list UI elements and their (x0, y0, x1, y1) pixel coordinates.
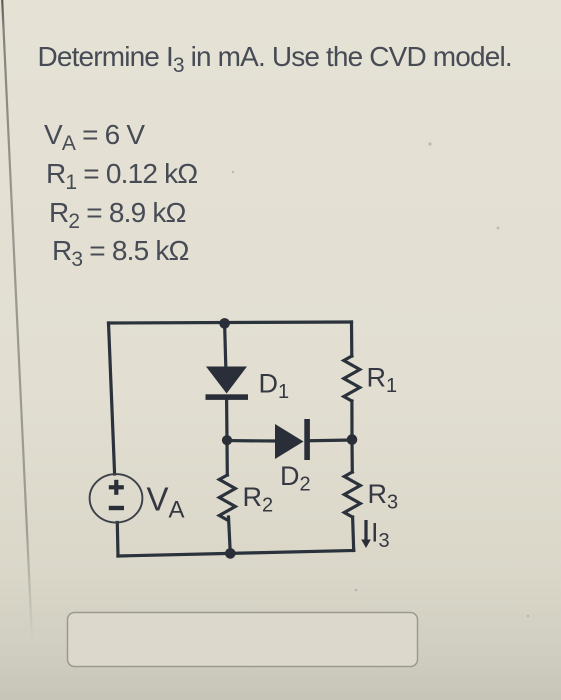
resistor R3 (344, 472, 360, 517)
diode D2 (body) (275, 419, 310, 460)
node: bottom junction (225, 548, 236, 559)
diode D1 (body) (206, 367, 249, 400)
wire: node A to D2 anode (227, 439, 275, 443)
resistor R2 (219, 475, 235, 520)
node A (middle junction) (222, 435, 232, 445)
wire: node B to R3 (350, 440, 353, 472)
voltage source plus sign (109, 480, 124, 495)
wire: bottom rail (118, 551, 354, 557)
wire: R2 to bottom node (229, 517, 231, 553)
wire: top rail (109, 322, 352, 323)
voltage source VA (circle) (90, 474, 143, 522)
screen edge line (photo border) (2, 0, 33, 660)
wire: left rail upper (top-left corner to source) (109, 323, 115, 474)
node: top junction (219, 318, 230, 329)
wire: middle rail upper (top node to D1) (225, 323, 226, 367)
wire: right rail upper (top-right corner to R1) (350, 322, 353, 356)
wire: node A to R2 (225, 440, 229, 475)
wire: D2 cathode to node B (310, 438, 353, 442)
current arrow I3 (361, 520, 371, 548)
svg-text:Determine I3 in mA. Use the CV: Determine I3 in mA. Use the CVD model. (38, 41, 512, 77)
resistor R1 (344, 356, 360, 401)
wire: D1 cathode to node A (225, 400, 229, 440)
wire: R3 to bottom-right corner (353, 517, 354, 551)
node B (right junction) (347, 434, 358, 445)
wire: R1 to node B (350, 401, 353, 440)
svg-text:VA = 6 V: VA = 6 V (44, 119, 145, 155)
dust specks (232, 142, 529, 622)
answer input box (68, 613, 418, 667)
wire: left rail lower (source to bottom-left corner) (116, 523, 120, 557)
voltage source minus sign (109, 506, 124, 510)
